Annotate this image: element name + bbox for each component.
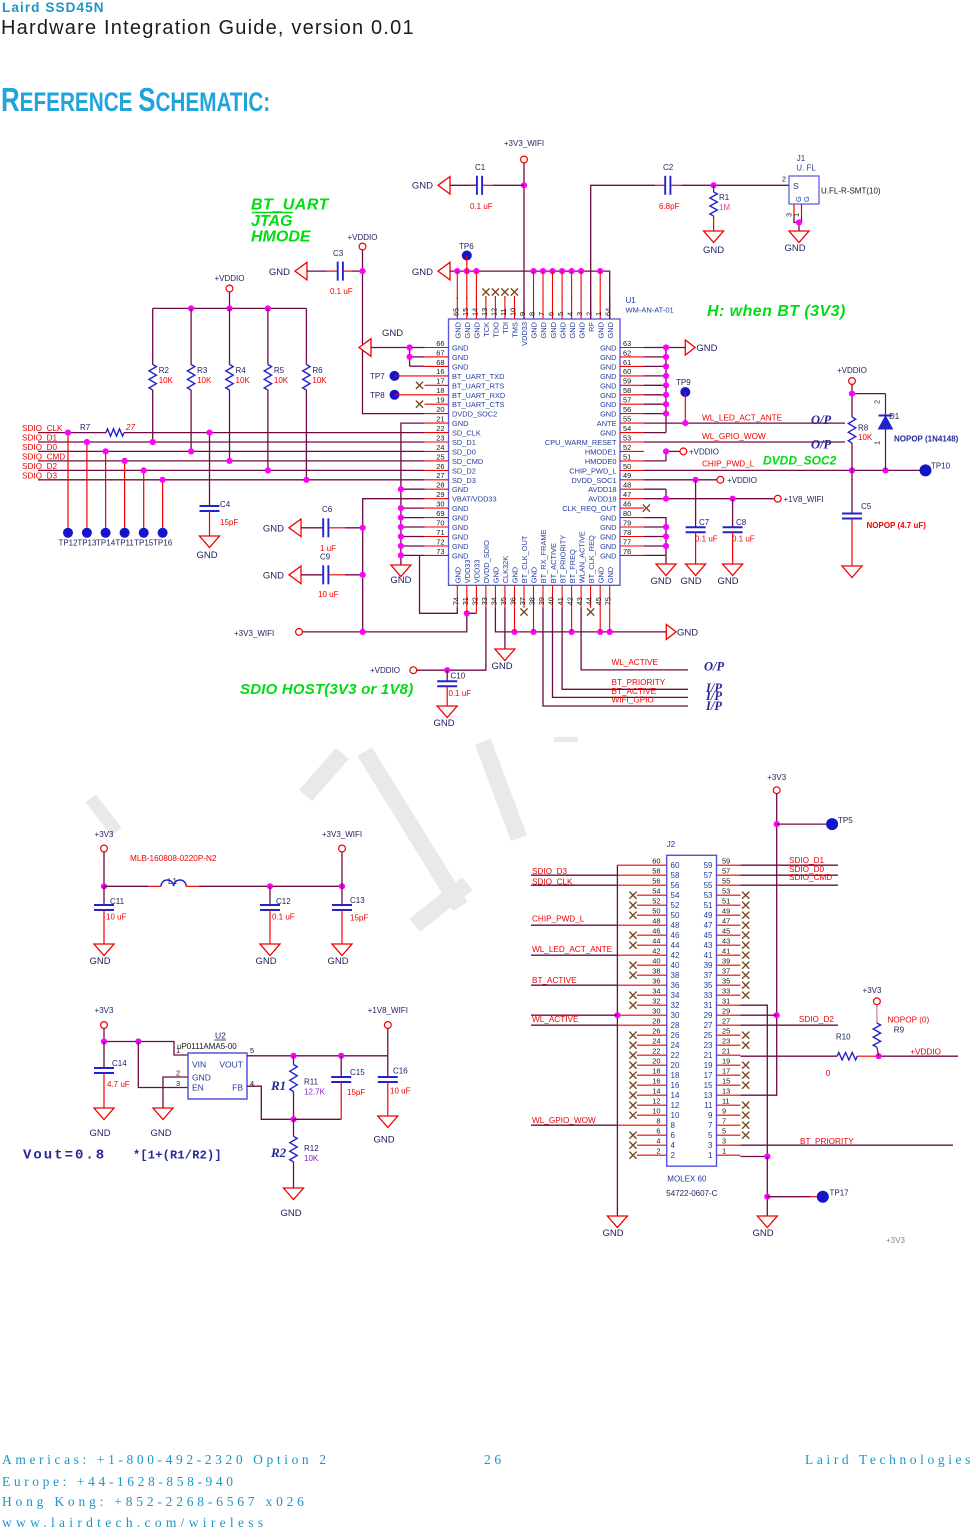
- svg-text:GND: GND: [784, 243, 805, 254]
- svg-text:C16: C16: [393, 1067, 408, 1076]
- U1 pin 5 (GND) stub: [556, 297, 567, 338]
- wire +3V3 to rail: [103, 852, 105, 886]
- test point TP17: [767, 1189, 849, 1203]
- svg-text:HMODE: HMODE: [251, 229, 312, 246]
- svg-text:13: 13: [722, 1086, 730, 1095]
- svg-text:WL_LED_ACT_ANTE: WL_LED_ACT_ANTE: [702, 413, 783, 422]
- svg-text:GND: GND: [539, 322, 548, 338]
- svg-text:+3V3_WIFI: +3V3_WIFI: [234, 629, 274, 638]
- svg-text:SDIO_CMD: SDIO_CMD: [22, 452, 65, 461]
- svg-text:52: 52: [671, 901, 680, 910]
- svg-text:GND: GND: [600, 372, 616, 381]
- junction divider mid: [290, 1116, 296, 1122]
- node +3V3_WIFI (L1 out): [322, 830, 362, 886]
- wire J2 pin29 to bus: [740, 1014, 776, 1016]
- svg-text:51: 51: [722, 896, 730, 905]
- svg-text:GND: GND: [511, 567, 520, 583]
- svg-text:37: 37: [518, 597, 527, 605]
- svg-text:15: 15: [461, 308, 470, 316]
- J1 pin 1 stub: [792, 204, 802, 217]
- svg-text:45: 45: [704, 931, 713, 940]
- wire net SDIO_D3 (J2): [531, 874, 617, 876]
- U1 pin 45 (GND) stub: [594, 567, 605, 607]
- svg-text:TP13: TP13: [77, 539, 97, 548]
- svg-text:10K: 10K: [304, 1154, 319, 1163]
- resistor R3 10K: [187, 308, 212, 451]
- svg-text:CLK_REQ_OUT: CLK_REQ_OUT: [562, 504, 617, 513]
- svg-text:GND: GND: [452, 533, 468, 542]
- svg-text:36: 36: [509, 597, 518, 605]
- capacitor C10 0.1uF: [437, 670, 471, 706]
- svg-text:0.1 uF: 0.1 uF: [449, 689, 472, 698]
- svg-text:NOPOP (1N4148): NOPOP (1N4148): [894, 435, 959, 444]
- svg-text:GND: GND: [192, 1073, 211, 1083]
- test point TP15: [134, 470, 154, 547]
- svg-text:DVDD_SOC1: DVDD_SOC1: [571, 476, 616, 485]
- svg-text:35: 35: [722, 976, 730, 985]
- svg-text:GND: GND: [600, 381, 616, 390]
- svg-text:30: 30: [671, 1011, 680, 1020]
- J2 pin 11 stub: [704, 1096, 749, 1109]
- svg-text:TP12: TP12: [58, 539, 78, 548]
- svg-text:GND: GND: [577, 322, 586, 338]
- svg-text:16: 16: [671, 1081, 680, 1090]
- node +1V8_WIFI (U2): [368, 1006, 408, 1056]
- svg-text:75: 75: [604, 597, 613, 605]
- wire net BT_PRIORITY (J2 pin3): [740, 1144, 953, 1146]
- svg-text:GND: GND: [327, 956, 348, 967]
- svg-text:uP0111AMA5-00: uP0111AMA5-00: [177, 1042, 237, 1051]
- svg-text:67: 67: [436, 348, 444, 357]
- svg-text:+VDDIO: +VDDIO: [214, 274, 244, 283]
- svg-text:GND: GND: [452, 504, 468, 513]
- svg-text:TP16: TP16: [153, 539, 173, 548]
- svg-text:45: 45: [594, 597, 603, 605]
- wire J2 pin1 GND chain: [740, 1156, 767, 1158]
- ground symbol (C5): [842, 566, 862, 578]
- junction C6: [360, 525, 366, 531]
- svg-text:SDIO HOST(3V3 or 1V8): SDIO HOST(3V3 or 1V8): [240, 681, 413, 698]
- wire +VDDIO pullup rail: [153, 307, 307, 309]
- U1 pin 47 (AVDD18) stub: [588, 490, 644, 504]
- ground arrow (pins 63-54): [685, 340, 717, 355]
- U1 pin 17 (BT_UART_RTS) stub: [425, 377, 505, 391]
- svg-text:10K: 10K: [274, 376, 289, 385]
- svg-text:62: 62: [623, 348, 631, 357]
- junction R9/R10: [876, 1053, 882, 1059]
- svg-text:56: 56: [623, 405, 631, 414]
- svg-text:SD_CLK: SD_CLK: [452, 429, 481, 438]
- J2 pin 34 stub: [629, 986, 680, 999]
- test point TP7: [370, 371, 425, 381]
- svg-text:23: 23: [436, 433, 444, 442]
- svg-text:52: 52: [652, 896, 660, 905]
- ground arrow (pins 66-68): [359, 328, 403, 356]
- svg-text:40: 40: [547, 597, 556, 605]
- svg-text:21: 21: [436, 415, 444, 424]
- footer line Americas: [2, 1452, 330, 1468]
- svg-text:11: 11: [704, 1101, 713, 1110]
- connector J1 U.FL: [782, 154, 881, 204]
- wire +VDDIO to R8/D1: [852, 384, 886, 417]
- wire VOUT rail: [247, 1055, 388, 1057]
- ground symbol (pins 80-76): [650, 564, 676, 587]
- svg-text:7: 7: [708, 1121, 713, 1130]
- svg-text:BT_ACTIVE: BT_ACTIVE: [549, 543, 558, 583]
- svg-text:28: 28: [671, 1021, 680, 1030]
- junction pins 66/67: [407, 344, 413, 350]
- test point TP5: [777, 816, 854, 830]
- svg-text:VIN: VIN: [192, 1060, 206, 1070]
- ground symbol (C14): [89, 1108, 114, 1139]
- svg-text:GND: GND: [433, 718, 454, 729]
- svg-text:+VDDIO: +VDDIO: [347, 233, 377, 242]
- svg-text:GND: GND: [412, 181, 433, 192]
- junction pins31/32: [464, 610, 470, 616]
- svg-text:+3V3: +3V3: [767, 773, 786, 782]
- wire GND pins 80-76 vertical: [644, 518, 666, 564]
- svg-text:1M: 1M: [719, 203, 730, 212]
- svg-text:32: 32: [470, 597, 479, 605]
- svg-text:53: 53: [704, 891, 713, 900]
- svg-text:GND: GND: [602, 1228, 623, 1239]
- svg-text:20: 20: [436, 405, 444, 414]
- svg-text:44: 44: [671, 941, 680, 950]
- svg-text:47: 47: [623, 490, 631, 499]
- svg-text:C13: C13: [350, 896, 365, 905]
- junction R5: [265, 467, 271, 473]
- U1 pin 20 (DVDD_SOC2) stub: [425, 405, 498, 419]
- svg-text:WM-AN-AT-01: WM-AN-AT-01: [626, 306, 674, 315]
- resistor R9 NOPOP (0): [873, 1005, 929, 1056]
- J2 pin 22 stub: [629, 1046, 680, 1059]
- svg-text:R3: R3: [197, 366, 208, 375]
- svg-text:38: 38: [671, 971, 680, 980]
- svg-text:5: 5: [250, 1046, 254, 1055]
- svg-text:+1V8_WIFI: +1V8_WIFI: [784, 495, 824, 504]
- J2 pin 55 stub: [704, 876, 741, 889]
- wire net SDIO_CMD (J2): [740, 884, 838, 886]
- U1 pin 26 (SD_D2) stub: [425, 462, 476, 476]
- svg-text:60: 60: [623, 367, 631, 376]
- svg-text:72: 72: [436, 537, 444, 546]
- U1 pin 78 (GND) stub: [600, 528, 644, 542]
- capacitor C6 1uF: [301, 505, 363, 553]
- wire net BT_ACTIVE (pin40): [553, 607, 689, 697]
- svg-text:GND: GND: [600, 391, 616, 400]
- wires top GND pins to bus: [456, 271, 458, 299]
- ground symbol (C13): [327, 944, 352, 967]
- svg-text:GND: GND: [452, 344, 468, 353]
- svg-text:GND: GND: [263, 570, 284, 581]
- svg-text:22: 22: [652, 1046, 660, 1055]
- test point TP12: [58, 433, 78, 548]
- svg-text:10K: 10K: [312, 376, 327, 385]
- svg-text:3: 3: [708, 1141, 713, 1150]
- J2 pin 20 stub: [629, 1056, 680, 1069]
- svg-text:SDIO_D1: SDIO_D1: [22, 434, 57, 443]
- svg-text:SDIO_D3: SDIO_D3: [22, 471, 57, 480]
- wire net WIFI_GPIO (pin39): [543, 607, 688, 706]
- watermark band 3: [357, 747, 467, 911]
- U1 pin 52 (HMODE1) stub: [585, 443, 644, 457]
- svg-text:GND: GND: [196, 550, 217, 561]
- ground symbol (J2 right): [752, 1216, 777, 1239]
- J2 pin 32 stub: [629, 996, 680, 1009]
- wire net SDIO_D3: [38, 479, 425, 481]
- svg-text:2: 2: [176, 1069, 180, 1078]
- svg-text:10: 10: [671, 1111, 680, 1120]
- svg-text:27: 27: [436, 471, 444, 480]
- junction C14: [101, 1038, 107, 1044]
- no-connect X pin19: [416, 401, 423, 408]
- svg-text:65: 65: [451, 308, 460, 316]
- svg-text:R11: R11: [304, 1078, 319, 1087]
- svg-text:55: 55: [623, 415, 631, 424]
- svg-text:3: 3: [575, 312, 584, 316]
- J2 pin 8 stub: [617, 1116, 675, 1129]
- svg-text:38: 38: [528, 597, 537, 605]
- J2 pin 42 stub: [617, 946, 680, 959]
- J2 pin 27 stub: [704, 1016, 741, 1029]
- U1 pin 38 (GND) stub: [528, 567, 539, 607]
- U1 pin 29 (VBAT/VDD33) stub: [425, 490, 497, 504]
- svg-text:51: 51: [623, 452, 631, 461]
- svg-text:CHIP_PWD_L: CHIP_PWD_L: [569, 466, 616, 475]
- svg-text:VOUT: VOUT: [219, 1060, 243, 1070]
- J2 pin 37 stub: [704, 966, 750, 979]
- svg-text:5: 5: [708, 1131, 713, 1140]
- svg-text:GND: GND: [600, 533, 616, 542]
- node +VDDIO (pullups): [214, 274, 244, 308]
- U1 pin 49 (DVDD_SOC1) stub: [571, 471, 644, 485]
- svg-text:14: 14: [671, 1091, 680, 1100]
- J2 pin 14 stub: [629, 1086, 680, 1099]
- J2 pin 56 stub: [617, 876, 680, 889]
- svg-text:0.1 uF: 0.1 uF: [272, 913, 295, 922]
- svg-text:+3V3_WIFI: +3V3_WIFI: [504, 139, 544, 148]
- node +3V3_WIFI (rail): [234, 629, 302, 639]
- svg-text:26: 26: [671, 1031, 680, 1040]
- ground arrow (C1): [412, 177, 450, 195]
- svg-text:GND: GND: [680, 576, 701, 587]
- svg-text:49: 49: [722, 906, 730, 915]
- J2 pin 2 stub: [629, 1146, 675, 1159]
- svg-text:GND: GND: [600, 429, 616, 438]
- U1 pin 40 (BT_ACTIVE) stub: [547, 543, 558, 607]
- junction D1 node: [882, 467, 888, 473]
- wire net WL_GPIO_WOW (J2): [531, 1124, 617, 1126]
- J2 pin 47 stub: [704, 916, 750, 929]
- wire net SDIO_D0: [38, 450, 425, 452]
- U1 pin 32 (VDD33) stub: [470, 559, 481, 607]
- svg-text:GND: GND: [373, 1135, 394, 1146]
- svg-text:57: 57: [722, 866, 730, 875]
- junction C9: [360, 572, 366, 578]
- svg-text:25: 25: [722, 1026, 730, 1035]
- op-amp U1 body (WM-AN-AT-01): [449, 319, 621, 585]
- node +VDDIO (pin49): [717, 476, 757, 485]
- junction C2/R1/J1: [711, 182, 717, 188]
- junction EN tie: [135, 1038, 141, 1044]
- wire net BT_ACTIVE (J2): [531, 984, 617, 986]
- capacitor C11 10uF: [94, 886, 127, 944]
- J2 pin 17 stub: [704, 1066, 750, 1079]
- svg-text:19: 19: [436, 396, 444, 405]
- svg-text:GND: GND: [255, 956, 276, 967]
- svg-text:C8: C8: [736, 518, 747, 527]
- junction TP13 tap: [84, 439, 90, 445]
- svg-text:2: 2: [782, 175, 786, 184]
- svg-text:58: 58: [652, 866, 660, 875]
- svg-text:55: 55: [704, 881, 713, 890]
- wire L1 rail right: [199, 885, 342, 887]
- svg-text:GND: GND: [600, 353, 616, 362]
- U1 pin 53 (CPU_WARM_RESET) stub: [545, 433, 644, 447]
- svg-text:GND: GND: [269, 267, 290, 278]
- wire net DVDD_SOC1 to +VDDIO (pin49): [644, 479, 717, 481]
- svg-text:GND: GND: [596, 322, 605, 338]
- svg-text:WL_GPIO_WOW: WL_GPIO_WOW: [702, 432, 766, 441]
- svg-text:52: 52: [623, 443, 631, 452]
- wire top GND bus: [450, 271, 610, 319]
- svg-text:TP17: TP17: [830, 1189, 850, 1198]
- J2 pin 45 stub: [704, 926, 750, 939]
- wire +3V3 bus vertical: [740, 794, 776, 1096]
- svg-text:AVDD18: AVDD18: [588, 485, 616, 494]
- svg-text:TDO: TDO: [492, 322, 501, 338]
- svg-text:J2: J2: [667, 840, 676, 849]
- svg-text:TP5: TP5: [838, 816, 853, 825]
- junction R4: [226, 458, 232, 464]
- junctions GND vertical left: [398, 486, 404, 492]
- svg-text:C7: C7: [699, 518, 710, 527]
- U1 pin 80 (GND) stub: [600, 509, 644, 523]
- svg-text:28: 28: [652, 1016, 660, 1025]
- test point TP10: [920, 462, 951, 477]
- junction C1/+3V3_WIFI: [521, 182, 527, 188]
- svg-text:73: 73: [436, 547, 444, 556]
- svg-text:32: 32: [652, 996, 660, 1005]
- svg-text:4.7 uF: 4.7 uF: [107, 1080, 130, 1089]
- svg-text:BT_FREQ: BT_FREQ: [568, 549, 577, 583]
- wire C3 to DVDD_SOC2 pin20: [352, 270, 363, 272]
- svg-text:22: 22: [671, 1051, 680, 1060]
- U1 pin 1 (GND) stub: [594, 297, 605, 338]
- junction TP12 tap: [65, 430, 71, 436]
- svg-text:GND: GND: [452, 523, 468, 532]
- svg-text:17: 17: [436, 377, 444, 386]
- U1 pin 60 (GND) stub: [600, 367, 644, 381]
- svg-text:50: 50: [652, 906, 660, 915]
- svg-text:57: 57: [623, 396, 631, 405]
- junctions bottom GND bus: [511, 629, 517, 635]
- U1 pin 54 (GND) stub: [600, 424, 644, 438]
- svg-text:36: 36: [652, 976, 660, 985]
- wire GND pins 63-54 vertical: [644, 348, 685, 433]
- svg-text:GND: GND: [717, 576, 738, 587]
- svg-text:GND: GND: [600, 362, 616, 371]
- svg-text:C10: C10: [451, 672, 466, 681]
- wire AVDD18 pins 48/47 to +1V8_WIFI: [644, 489, 774, 499]
- U1 pin 77 (GND) stub: [600, 537, 644, 551]
- footer line website: [2, 1515, 267, 1531]
- junction C7 tap: [693, 477, 699, 483]
- svg-text:U1: U1: [626, 296, 637, 305]
- svg-text:2: 2: [671, 1151, 676, 1160]
- svg-text:CHIP_PWD_L: CHIP_PWD_L: [532, 915, 585, 924]
- svg-text:10: 10: [509, 308, 518, 316]
- svg-text:VDD33: VDD33: [520, 322, 529, 346]
- U1 pin 33 (DVDD_SDIO) stub: [480, 540, 491, 607]
- U1 pin 59 (GND) stub: [600, 377, 644, 391]
- regulator U2 uP0111AMA5-00: [176, 1031, 254, 1100]
- svg-text:GND: GND: [606, 322, 615, 338]
- J2 pin 16 stub: [629, 1076, 680, 1089]
- svg-text:54: 54: [623, 424, 631, 433]
- svg-text:GND: GND: [454, 322, 463, 338]
- ground symbol (R12): [280, 1188, 303, 1219]
- ground symbol (C4): [196, 536, 219, 561]
- wire J2 pins31-13 tie: [740, 1005, 767, 1156]
- svg-text:4: 4: [566, 312, 575, 316]
- wire EN tie to pin3: [138, 1042, 188, 1088]
- U1 pin 43 (WLAN_ACTIVE) stub: [575, 531, 586, 607]
- J2 pin 26 stub: [629, 1026, 680, 1039]
- svg-text:O/P: O/P: [811, 413, 832, 427]
- svg-text:10K: 10K: [236, 376, 251, 385]
- svg-text:JTAG: JTAG: [251, 213, 292, 230]
- resistor R10 0: [826, 1033, 858, 1079]
- svg-text:49: 49: [623, 471, 631, 480]
- svg-text:GND: GND: [89, 1128, 110, 1139]
- svg-text:10 uF: 10 uF: [318, 590, 339, 599]
- svg-text:GND: GND: [452, 419, 468, 428]
- svg-text:40: 40: [671, 961, 680, 970]
- svg-text:R5: R5: [274, 366, 285, 375]
- wire net SDIO_D2 (J2 pin27): [740, 1024, 838, 1026]
- U1 pin 39 (BT_RX_FRAME) stub: [537, 529, 548, 607]
- svg-text:GND: GND: [263, 523, 284, 534]
- svg-text:BT_UART_TXD: BT_UART_TXD: [452, 372, 504, 381]
- svg-text:+VDDIO: +VDDIO: [689, 448, 719, 457]
- svg-text:21: 21: [722, 1046, 730, 1055]
- svg-text:SDIO_D2: SDIO_D2: [22, 462, 57, 471]
- wire GND chain down: [766, 1157, 768, 1217]
- svg-text:20: 20: [671, 1061, 680, 1070]
- junction R11 top: [290, 1053, 296, 1059]
- svg-text:WIFI_GPIO: WIFI_GPIO: [612, 696, 654, 705]
- svg-text:C9: C9: [320, 553, 331, 562]
- J2 pin 46 stub: [629, 926, 680, 939]
- svg-text:*[1+(R1/R2)]: *[1+(R1/R2)]: [133, 1149, 222, 1163]
- wire bottom GND bus: [495, 607, 666, 632]
- U1 pin 12 (TDO) stub: [489, 297, 500, 338]
- wire FB to divider: [247, 1086, 294, 1119]
- U1 pin 64 (GND) stub: [604, 297, 615, 338]
- J2 pin 44 stub: [629, 936, 680, 949]
- U1 pin 19 (BT_UART_CTS) stub: [425, 396, 505, 410]
- junction C10 tap: [444, 667, 450, 673]
- svg-text:25: 25: [704, 1031, 713, 1040]
- svg-text:60: 60: [671, 861, 680, 870]
- wire pin73 to pin74 GND: [420, 555, 458, 613]
- svg-text:GND: GND: [549, 322, 558, 338]
- J2 pin 48 stub: [617, 916, 680, 929]
- test point TP16: [153, 480, 173, 548]
- J2 pin 41 stub: [704, 946, 750, 959]
- svg-text:27: 27: [704, 1021, 713, 1030]
